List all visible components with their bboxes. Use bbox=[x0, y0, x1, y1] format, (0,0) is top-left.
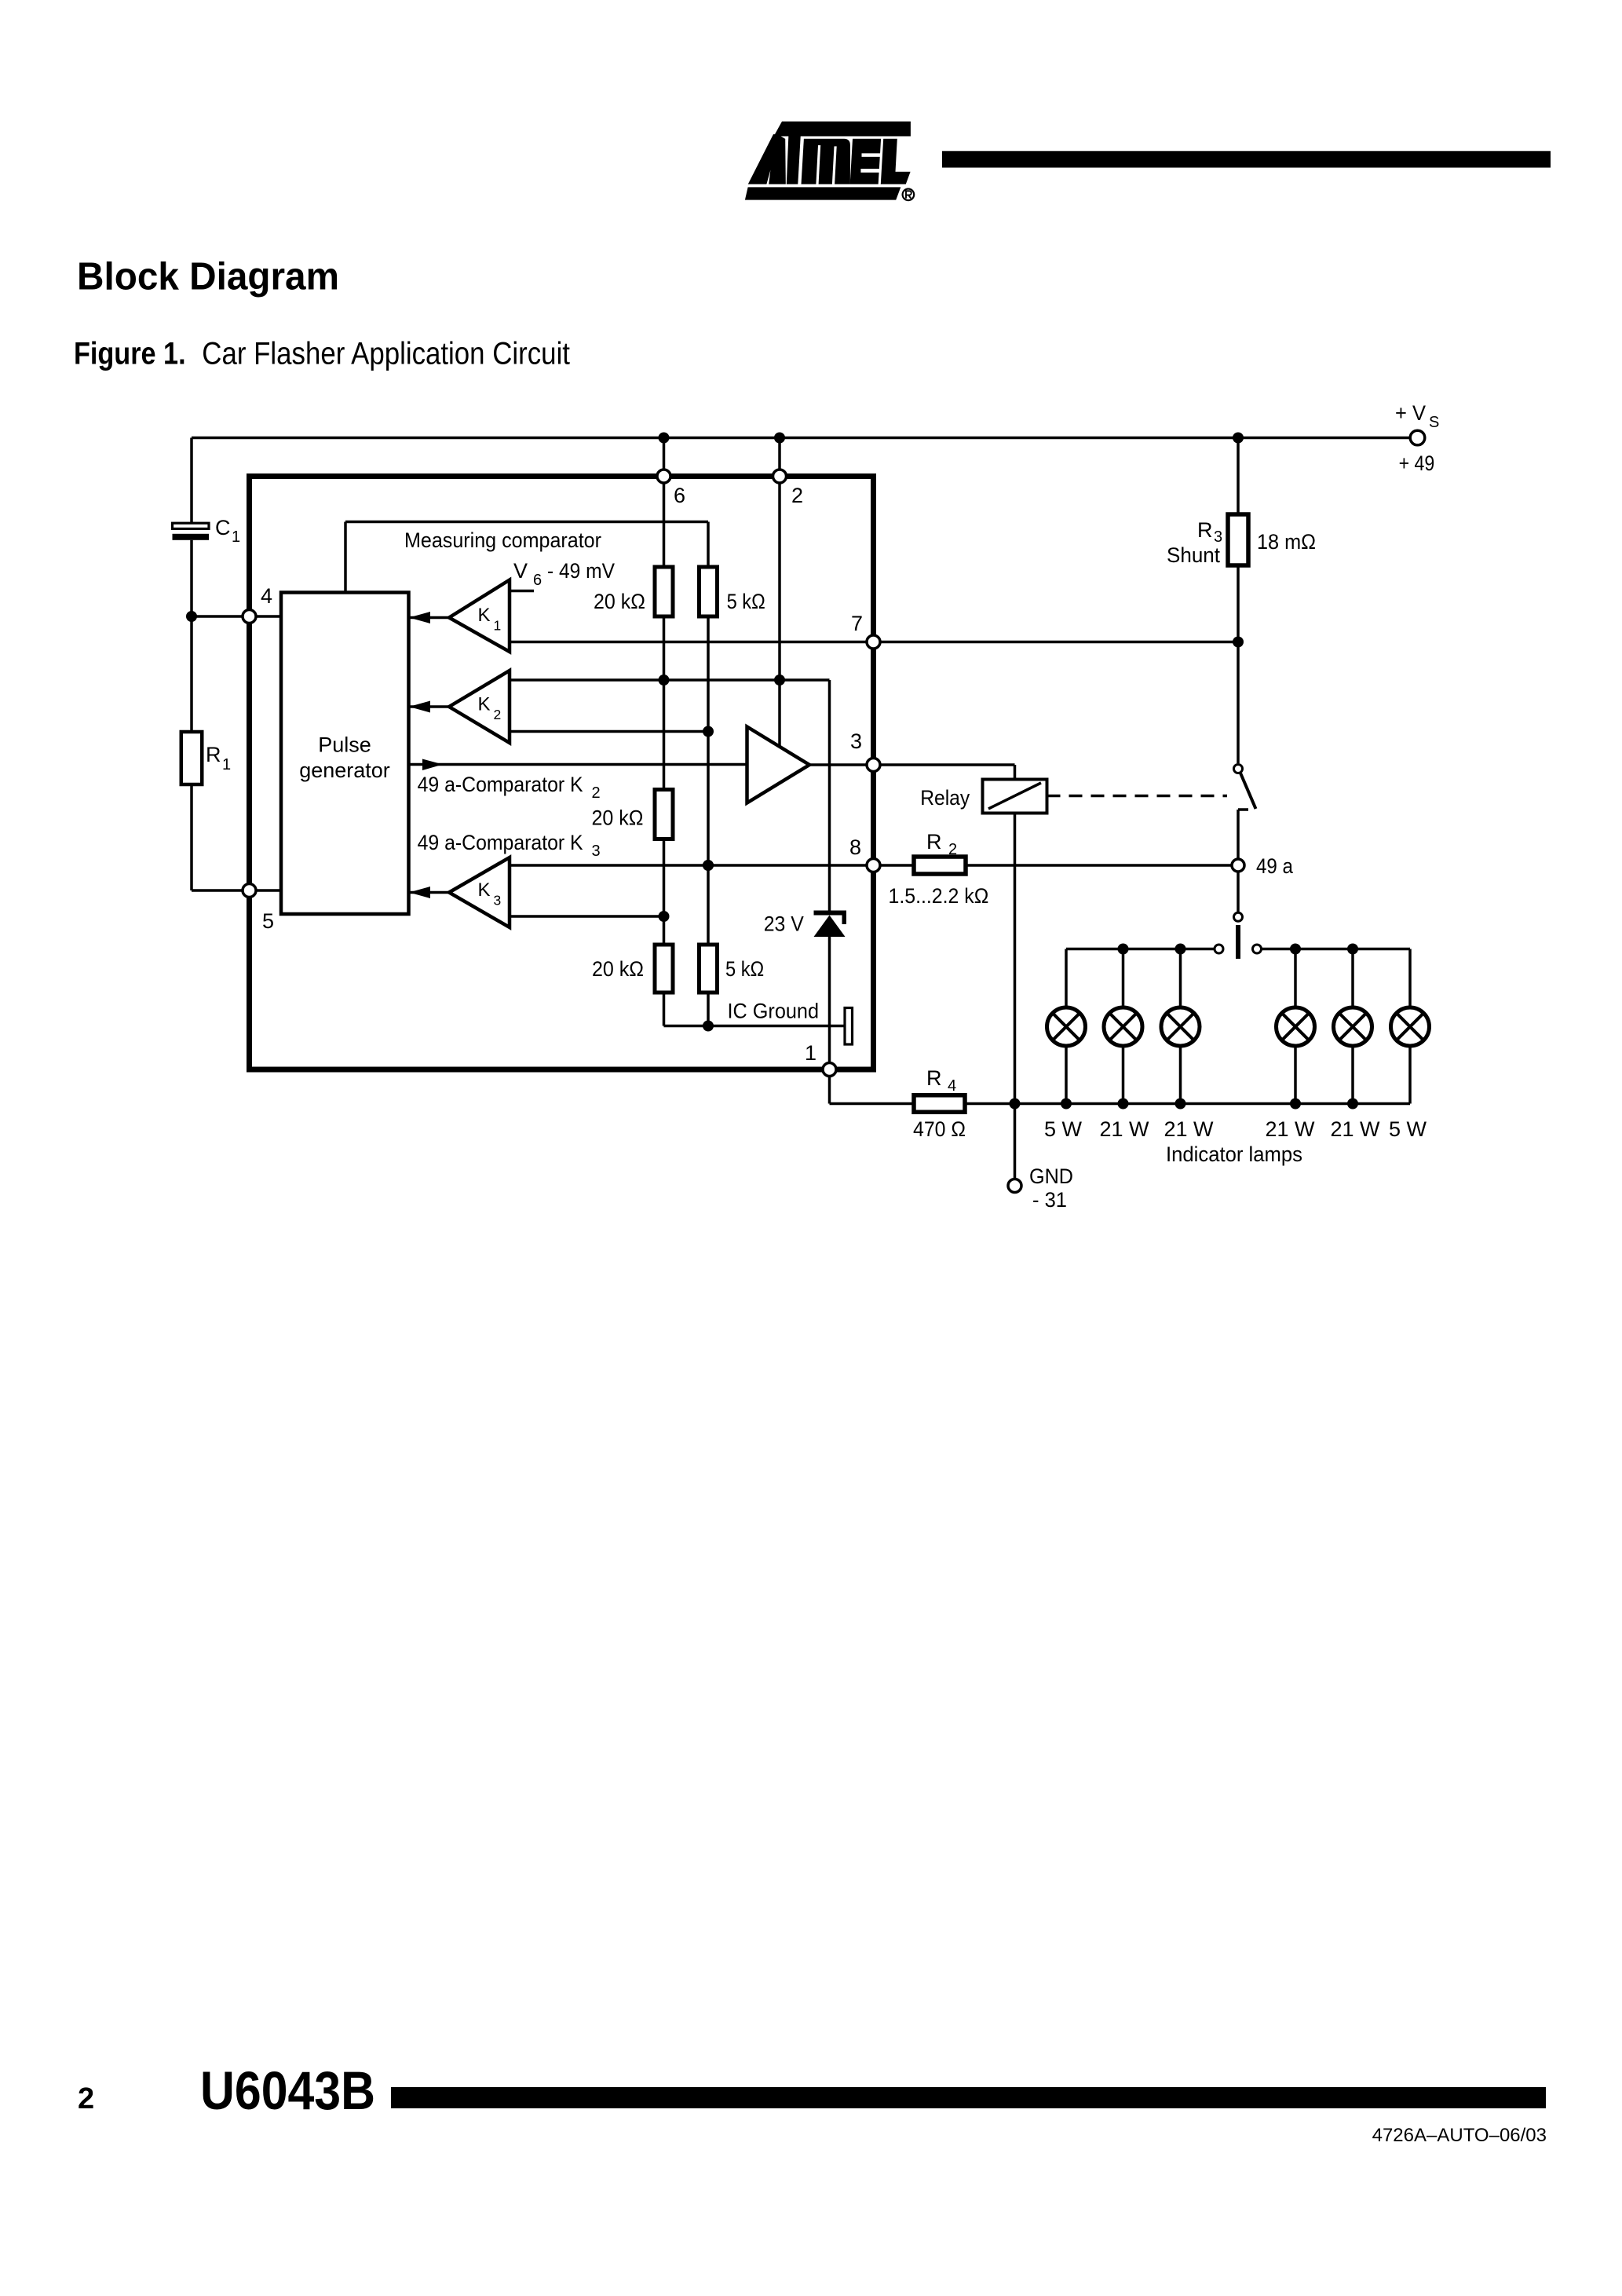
svg-text:6: 6 bbox=[533, 572, 542, 589]
svg-text:4: 4 bbox=[261, 584, 272, 608]
svg-text:K: K bbox=[478, 694, 491, 715]
svg-text:S: S bbox=[1429, 414, 1439, 431]
svg-text:Measuring comparator: Measuring comparator bbox=[404, 528, 601, 552]
svg-text:5 W: 5 W bbox=[1389, 1117, 1427, 1141]
svg-text:470 Ω: 470 Ω bbox=[913, 1117, 966, 1141]
svg-text:R: R bbox=[926, 1066, 942, 1090]
svg-text:2: 2 bbox=[948, 841, 957, 858]
svg-text:49 a-Comparator K: 49 a-Comparator K bbox=[418, 831, 583, 854]
svg-text:1: 1 bbox=[494, 618, 502, 634]
svg-text:GND: GND bbox=[1029, 1164, 1073, 1188]
svg-text:8: 8 bbox=[849, 835, 861, 859]
svg-text:49 a-Comparator K: 49 a-Comparator K bbox=[418, 773, 583, 796]
svg-text:1.5...2.2 kΩ: 1.5...2.2 kΩ bbox=[889, 884, 989, 908]
svg-text:23 V: 23 V bbox=[764, 912, 804, 935]
svg-text:Relay: Relay bbox=[920, 786, 970, 810]
svg-text:1: 1 bbox=[222, 756, 231, 773]
svg-text:Block Diagram: Block Diagram bbox=[77, 256, 339, 298]
svg-text:1: 1 bbox=[805, 1041, 816, 1065]
svg-text:- 31: - 31 bbox=[1032, 1188, 1067, 1212]
svg-text:3: 3 bbox=[494, 893, 502, 909]
svg-text:5: 5 bbox=[262, 909, 274, 933]
svg-text:3: 3 bbox=[850, 729, 862, 753]
svg-text:- 49 mV: - 49 mV bbox=[547, 559, 615, 583]
svg-text:4: 4 bbox=[948, 1077, 956, 1095]
svg-text:3: 3 bbox=[592, 843, 601, 860]
svg-text:49 a: 49 a bbox=[1256, 854, 1294, 878]
svg-text:Indicator lamps: Indicator lamps bbox=[1166, 1143, 1302, 1166]
svg-text:18 mΩ: 18 mΩ bbox=[1257, 530, 1316, 554]
svg-text:Figure 1.: Figure 1. bbox=[74, 336, 186, 371]
svg-text:+ 49: + 49 bbox=[1399, 452, 1435, 475]
svg-text:K: K bbox=[478, 605, 491, 626]
svg-text:1: 1 bbox=[232, 528, 240, 546]
svg-text:2: 2 bbox=[494, 707, 502, 722]
svg-text:20 kΩ: 20 kΩ bbox=[594, 590, 645, 613]
svg-text:2: 2 bbox=[592, 784, 601, 802]
svg-text:Pulse: Pulse bbox=[318, 733, 371, 757]
svg-text:R: R bbox=[926, 830, 942, 854]
svg-text:R: R bbox=[1197, 518, 1213, 542]
svg-text:IC Ground: IC Ground bbox=[728, 1000, 820, 1023]
svg-text:20 kΩ: 20 kΩ bbox=[592, 957, 644, 981]
svg-text:5 kΩ: 5 kΩ bbox=[727, 590, 765, 613]
svg-text:5 W: 5 W bbox=[1044, 1117, 1083, 1141]
svg-text:R: R bbox=[206, 743, 221, 766]
svg-text:Shunt: Shunt bbox=[1167, 543, 1220, 567]
svg-text:7: 7 bbox=[851, 612, 863, 635]
svg-text:+ V: + V bbox=[1395, 401, 1426, 425]
svg-text:2: 2 bbox=[78, 2082, 94, 2115]
svg-text:4726A–AUTO–06/03: 4726A–AUTO–06/03 bbox=[1372, 2125, 1547, 2146]
svg-text:6: 6 bbox=[674, 484, 685, 507]
svg-text:21 W: 21 W bbox=[1099, 1117, 1149, 1141]
svg-text:U6043B: U6043B bbox=[200, 2060, 375, 2121]
svg-text:C: C bbox=[215, 516, 231, 539]
svg-text:5 kΩ: 5 kΩ bbox=[725, 957, 764, 981]
svg-text:Car Flasher Application Circui: Car Flasher Application Circuit bbox=[202, 336, 570, 371]
svg-text:21 W: 21 W bbox=[1265, 1117, 1315, 1141]
svg-text:21 W: 21 W bbox=[1164, 1117, 1214, 1141]
svg-text:generator: generator bbox=[299, 759, 390, 782]
svg-text:2: 2 bbox=[791, 484, 803, 507]
svg-text:V: V bbox=[513, 559, 528, 583]
svg-text:20 kΩ: 20 kΩ bbox=[592, 806, 644, 830]
svg-text:21 W: 21 W bbox=[1330, 1117, 1380, 1141]
svg-text:K: K bbox=[478, 879, 491, 901]
